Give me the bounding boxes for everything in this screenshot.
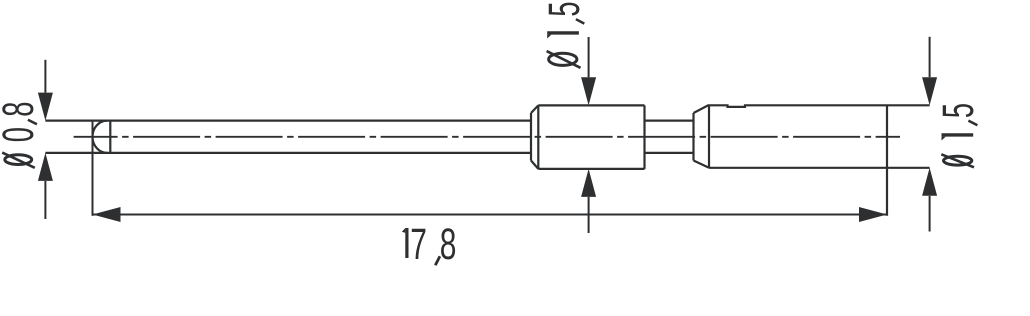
right Ø1,5 bottom extension line [887, 167, 930, 169]
diameter symbol of right Ø1,5 [941, 154, 974, 167]
narrow section bottom edge [645, 152, 694, 154]
svg-text:8: 8 [440, 220, 457, 269]
Ø1,5 right dimension lower line [929, 196, 931, 232]
Ø1,5 right dimension upper line [929, 37, 931, 77]
right Ø1,5 top extension line [887, 104, 930, 106]
Ø0,8 dimension upper line [44, 60, 46, 93]
block right edge [643, 105, 645, 168]
dimension text 17,8: comma (custom) [435, 256, 440, 265]
svg-text:5: 5 [540, 1, 589, 16]
Ø1,5 right arrowhead up [922, 168, 937, 196]
dimension comma (left, rotated, custom) [28, 120, 37, 125]
Ø1,5 top dimension lower line [588, 197, 590, 233]
svg-text:0: 0 [0, 127, 43, 142]
block left edge [537, 105, 539, 168]
center line (dash-dot axis) [74, 136, 900, 138]
block bottom chamfer [531, 161, 538, 169]
Ø1,5 top arrowhead down [581, 77, 596, 105]
block top edge [538, 104, 644, 106]
svg-text:8: 8 [0, 102, 43, 117]
pin tip dome arc [93, 121, 107, 153]
17,8 arrowhead left [93, 207, 121, 222]
dimension comma (top, rotated, custom) [576, 19, 584, 23]
right part top edge with notch [709, 105, 887, 107]
dimension comma (right, rotated, custom) [968, 121, 977, 126]
Ø1,5 top arrowhead up [581, 169, 596, 197]
right part top chamfer [694, 105, 710, 113]
diameter symbol of left Ø0,8 [2, 153, 35, 168]
Ø0,8 arrowhead up [38, 153, 53, 181]
narrow section top edge [645, 119, 694, 121]
17,8 dimension line [93, 214, 888, 216]
right part bottom chamfer [694, 161, 710, 168]
right part bottom edge [709, 167, 887, 169]
pin top edge (also Ø0,8 extension line) [45, 119, 531, 121]
block top chamfer [531, 105, 538, 113]
Ø0,8 dimension lower line [44, 181, 46, 219]
svg-text:5: 5 [934, 103, 983, 118]
dimension digit 1 of right Ø1,5 (custom bar+flag) [942, 133, 974, 140]
block bottom edge [538, 168, 644, 170]
right part left face [692, 113, 694, 161]
right part end edge (extends to 17,8 dimension line) [886, 105, 888, 216]
svg-text:7: 7 [410, 220, 427, 269]
dimension text 17,8: digit 1 (custom bar+flag) [402, 228, 409, 258]
diameter symbol of top Ø1,5 [547, 51, 581, 68]
block left face [530, 113, 532, 161]
Ø0,8 arrowhead down [38, 93, 53, 121]
17,8 left extension line [92, 120, 94, 216]
dimension digit 1 of top Ø1,5 (custom bar+flag) [547, 31, 579, 38]
pin tip back edge [109, 120, 111, 154]
17,8 arrowhead right [859, 207, 887, 222]
right part left edge [708, 105, 710, 168]
Ø1,5 right arrowhead down [922, 77, 937, 105]
pin bottom edge (also Ø0,8 extension line) [45, 152, 531, 154]
Ø1,5 top dimension upper line [588, 37, 590, 77]
